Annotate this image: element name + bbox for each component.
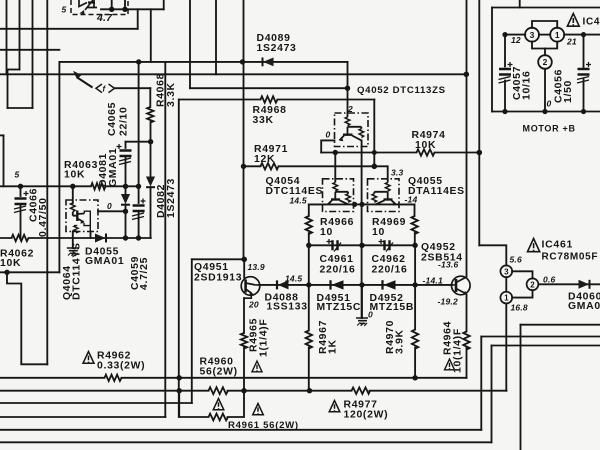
warning triangle mid: [253, 404, 264, 415]
wire stair2 down: [480, 337, 482, 430]
wire reg bracket: [512, 290, 532, 297]
resistor R4068 vertical: [147, 107, 153, 123]
svg-text:R4068: R4068: [156, 73, 167, 107]
node dot (362,284.9): [359, 282, 364, 287]
node dot (583.5,111.5): [581, 109, 586, 114]
svg-text:5.6: 5.6: [510, 255, 522, 265]
node dot (335.3,152.5): [333, 150, 338, 155]
wire R4965 branch: [243, 298, 245, 391]
wire R4966 branch: [308, 204, 310, 390]
wire stair3 down: [491, 346, 493, 443]
wire: [137, 9, 139, 29]
wire top-left component output: [101, 8, 164, 10]
wire R4971 line: [244, 165, 375, 167]
wire stair1: [521, 324, 600, 326]
svg-text:21: 21: [566, 37, 577, 47]
resistor R4968: [261, 96, 278, 102]
node dot (347.5,88.2): [345, 86, 350, 91]
wire vert right2: [478, 0, 480, 245]
wire D4060 line: [538, 283, 600, 285]
svg-text:0.33(2W): 0.33(2W): [97, 361, 145, 372]
wire vert left1: [6, 0, 8, 74]
wire vert mid1: [164, 62, 166, 417]
svg-text:10: 10: [372, 227, 385, 238]
node dot (545,111.5): [542, 109, 547, 114]
node dot (505,111.5): [502, 109, 507, 114]
svg-text:3.3: 3.3: [391, 168, 403, 178]
wire: [564, 34, 600, 36]
svg-text:20: 20: [248, 300, 259, 310]
wire jog bottom-left: [7, 272, 47, 364]
wire long bus y74: [0, 73, 466, 75]
pin circle 2 motor: [538, 55, 552, 69]
wire R4068 D4082 stem: [149, 88, 151, 238]
wire C4059 stem: [138, 62, 140, 238]
wire vert D4089 long: [243, 0, 245, 259]
node dot (415.1,377.8): [412, 375, 417, 380]
wire: [8, 107, 33, 109]
node dot (583.5,34.6): [581, 32, 586, 37]
wire bus y391: [0, 390, 507, 392]
resistor R4974: [417, 149, 435, 155]
wire R4961 loop: [179, 391, 244, 417]
wire jog to Q4055: [374, 166, 387, 179]
svg-text:0: 0: [107, 201, 112, 211]
svg-text:-14: -14: [405, 195, 418, 205]
wire C4065 branch: [125, 142, 127, 238]
wire R4062 line: [0, 237, 151, 239]
resistor R4961: [209, 414, 228, 421]
svg-text:0.47/50: 0.47/50: [38, 197, 49, 237]
node dot (7,272.3): [4, 270, 9, 275]
wire Q4951 base stem: [243, 259, 245, 277]
svg-text:C4961: C4961: [320, 254, 354, 265]
svg-text:10K: 10K: [64, 170, 85, 181]
wire: [544, 49, 546, 56]
svg-text:220/16: 220/16: [320, 265, 356, 276]
wire vert box left: [58, 62, 60, 272]
svg-text:5: 5: [15, 170, 20, 180]
node dot (151,141.7): [148, 139, 153, 144]
node dot (362,245.3): [359, 243, 364, 248]
resistor R4960: [209, 387, 228, 394]
wire: [505, 34, 525, 36]
svg-text:1: 1: [555, 30, 560, 40]
resistor R4969 vertical: [411, 216, 417, 234]
wire Q4052 pin: [347, 62, 349, 113]
resistor R4966 vertical: [306, 216, 312, 234]
svg-text:220/16: 220/16: [372, 265, 408, 276]
node dot (415.1,245.3): [412, 243, 417, 248]
wire reg in vert: [505, 277, 507, 292]
diode D4089: [263, 58, 274, 67]
node dot (72.8,186.3): [70, 184, 75, 189]
svg-text:RC78M05F: RC78M05F: [542, 252, 599, 263]
wire stair2: [481, 336, 600, 338]
warning triangle R4964: [445, 359, 455, 370]
svg-text:-19.2: -19.2: [438, 297, 458, 307]
wire: [126, 141, 151, 143]
node dot (244,390.7): [241, 388, 246, 393]
svg-text:0.6: 0.6: [543, 275, 555, 285]
node dot (179.2,377.8): [177, 375, 182, 380]
adjust arrow: [73, 71, 93, 88]
svg-text:10/16: 10/16: [522, 70, 533, 100]
node dot (125,9.3): [122, 7, 127, 12]
wire Q4052 base vert: [373, 100, 375, 167]
wire stair3: [492, 345, 600, 347]
svg-text:0: 0: [368, 310, 373, 320]
wire vert top2: [215, 0, 217, 74]
wire R4969 branch: [414, 204, 417, 377]
warning triangle R4960: [213, 399, 224, 410]
svg-text:1/50: 1/50: [563, 80, 574, 103]
wire vert left5 long: [46, 0, 48, 364]
warning triangle R4962: [83, 352, 94, 364]
wire: [0, 271, 59, 273]
ground mid: [356, 318, 368, 326]
wire Q4052 col down: [361, 140, 363, 318]
wire Q4064 col stub: [90, 232, 92, 239]
pin circle 3 reg: [500, 265, 512, 277]
photo component top-left: [71, 0, 128, 15]
node dot (362,204.4): [359, 202, 364, 207]
diode D4055: [95, 234, 106, 243]
capacitor C4059: [132, 199, 146, 220]
wire bus y403: [0, 402, 192, 404]
diode D4060: [579, 280, 590, 289]
node dot (354.6,204.4): [352, 202, 357, 207]
warning triangle IC461: [528, 239, 540, 252]
pin circle 2 reg: [527, 278, 539, 290]
svg-text:10: 10: [320, 227, 333, 238]
svg-text:DTC114YS: DTC114YS: [72, 242, 83, 300]
wire bus y442: [0, 441, 492, 443]
node dot (479.3,152.5): [477, 150, 483, 156]
transistor box Q4054: [309, 179, 354, 212]
node dot (138.3,186.3): [136, 184, 141, 189]
wire node base bus y62: [59, 61, 347, 63]
svg-text:GMA01: GMA01: [568, 301, 600, 312]
warning triangle IC460: [567, 14, 579, 27]
svg-text:IC461: IC461: [542, 239, 574, 251]
wire vert left3: [7, 70, 9, 109]
diode D4952 zener: [383, 280, 396, 289]
wire R4063 line: [0, 185, 138, 187]
wire gnd stub mid: [361, 285, 363, 318]
capacitor C4057: [499, 62, 513, 83]
wire vert top1: [189, 0, 191, 88]
wire comp leads: [112, 0, 125, 9]
node dot (308.8,284.9): [306, 282, 311, 287]
capacitor C4056: [577, 62, 591, 83]
wire: [163, 0, 165, 9]
diode D4081: [121, 194, 130, 205]
wire motor box left: [491, 8, 493, 112]
svg-text:1: 1: [504, 294, 509, 303]
capacitor C4961: [327, 239, 342, 252]
svg-text:3.3K: 3.3K: [166, 82, 177, 107]
wire pin2 stem: [544, 69, 546, 112]
svg-text:IC460: IC460: [583, 17, 600, 28]
node dot (125.7,238): [123, 235, 128, 240]
svg-text:MTZ15B: MTZ15B: [370, 302, 415, 313]
pin circle 3 motor: [525, 28, 539, 42]
node dot (244.2,259.3): [241, 257, 247, 263]
wire: [8, 69, 20, 71]
pin circle 1 motor: [550, 28, 564, 42]
pin circle 1 reg: [500, 292, 512, 304]
svg-text:56(2W): 56(2W): [200, 367, 238, 378]
resistor R4977: [352, 388, 371, 394]
wire: [150, 9, 152, 62]
svg-text:3: 3: [504, 267, 509, 276]
svg-text:2: 2: [530, 280, 535, 289]
wire: [98, 210, 126, 212]
wire Q4054 pin: [334, 153, 336, 179]
node dot (308.8,245.3): [306, 243, 311, 248]
wire: [0, 28, 138, 30]
wire stair1 down: [520, 325, 522, 450]
resistor R4964 vertical: [463, 332, 469, 350]
node dot (415.1,284.9): [412, 282, 417, 287]
wire: [0, 49, 59, 51]
diode D4951 zener: [331, 280, 344, 289]
svg-text:-13.6: -13.6: [438, 260, 458, 270]
svg-text:10K: 10K: [415, 140, 436, 151]
svg-text:Q4951: Q4951: [194, 262, 229, 273]
node dot (374.3,166.3): [372, 164, 378, 170]
wire Q4951 base L: [192, 258, 244, 260]
connector f: [96, 84, 115, 94]
node dot (374.3,152.5): [372, 150, 377, 155]
svg-text:14.5: 14.5: [285, 274, 302, 284]
wire Q4951 L vert: [191, 259, 193, 403]
diode D4082: [146, 177, 155, 188]
svg-text:2: 2: [347, 104, 353, 114]
wire motor gnd line: [492, 111, 600, 113]
capacitor C4962: [379, 239, 394, 252]
svg-text:5: 5: [62, 5, 67, 15]
svg-text:13.9: 13.9: [248, 262, 265, 272]
svg-text:12: 12: [511, 35, 521, 45]
wire reg out down: [505, 304, 507, 391]
warning triangle R4965: [252, 361, 262, 372]
svg-text:2: 2: [543, 57, 548, 67]
ground Q4064: [67, 248, 79, 256]
wire vert left4: [32, 0, 34, 108]
transistor box Q4052: [335, 113, 369, 147]
wire: [0, 134, 4, 136]
svg-text:2SD1913: 2SD1913: [194, 273, 242, 284]
resistor R4063: [91, 183, 106, 189]
wire Q4052 emitter out: [321, 140, 334, 152]
svg-text:10(1/4)F: 10(1/4)F: [453, 328, 464, 373]
svg-text:C4065: C4065: [107, 102, 118, 136]
wire C4056 stem: [583, 35, 585, 112]
node dot (243.5,166.3): [241, 164, 246, 169]
warning triangle R4977: [329, 401, 340, 412]
svg-text:1(1/4)F: 1(1/4)F: [259, 319, 270, 357]
svg-text:1K: 1K: [328, 339, 339, 354]
node dot (179.2,390.7): [177, 388, 182, 393]
svg-text:16.8: 16.8: [511, 303, 528, 313]
wire: [3, 135, 5, 186]
wire Q4952 stem: [451, 284, 453, 286]
svg-text:C4962: C4962: [372, 254, 406, 265]
node dot (20.5,186.3): [18, 184, 23, 189]
svg-text:10K: 10K: [0, 258, 21, 269]
svg-text:12K: 12K: [254, 154, 275, 165]
transistor Q4952: [452, 276, 471, 295]
svg-text:3: 3: [530, 30, 535, 40]
wire cap line C4961 C4962: [309, 244, 415, 246]
resistor R4062: [12, 235, 29, 241]
resistor R4962: [105, 375, 122, 381]
wire pin bracket: [532, 21, 557, 28]
wire vert left2: [19, 0, 21, 70]
svg-text:3.9K: 3.9K: [395, 329, 406, 354]
transistor box Q4064: [66, 200, 98, 233]
wire: [539, 34, 550, 36]
svg-text:0: 0: [326, 130, 331, 140]
wire jog to reg: [479, 245, 506, 265]
svg-text:1S2473: 1S2473: [257, 43, 297, 54]
wire vert right main: [466, 0, 468, 378]
node dot (310,390.7): [307, 388, 312, 393]
wire Q4064 pin: [72, 186, 74, 203]
resistor R4970 vertical: [412, 330, 418, 349]
svg-text:Q4952: Q4952: [421, 242, 456, 253]
svg-text:GMA01: GMA01: [108, 148, 119, 187]
resistor R4967 vertical: [306, 331, 312, 349]
wire IC box bottom: [492, 7, 600, 9]
wire bus y430: [0, 429, 481, 431]
resistor R4965 vertical: [241, 333, 247, 349]
wire: [190, 87, 348, 89]
transistor box Q4055: [368, 179, 415, 212]
node dot (242.5,61.9): [240, 59, 245, 64]
svg-text:MOTOR +B: MOTOR +B: [523, 124, 576, 134]
capacitor C4066: [14, 191, 29, 213]
wire diode row y285: [259, 284, 452, 286]
wire C4057 stem: [504, 35, 506, 112]
diode D4088: [277, 280, 289, 289]
svg-text:1SS133: 1SS133: [267, 302, 308, 313]
svg-text:1S2473: 1S2473: [166, 178, 177, 218]
svg-text:0: 0: [547, 99, 552, 109]
wire bus y378: [0, 377, 467, 379]
svg-text:Q4052 DTC113ZS: Q4052 DTC113ZS: [357, 85, 446, 96]
wire IC box edge: [519, 0, 521, 8]
node dot (138.7,61.9): [136, 59, 141, 64]
svg-text:-14.1: -14.1: [423, 276, 443, 286]
node dot (138.5,238): [136, 235, 141, 240]
wire pin2 bracket: [532, 42, 557, 49]
node dot (111.7,9.3): [109, 7, 114, 12]
wire vert mid2: [178, 100, 180, 418]
node dot (125.7,211.3): [123, 209, 128, 214]
wire emitter bus: [309, 203, 415, 205]
node dot (505,34.6): [502, 32, 507, 37]
node dot (466.3,74.3): [464, 72, 470, 78]
node dot (125.7,186.3): [123, 184, 128, 189]
wire f-line: [115, 87, 150, 89]
wire Q4064 gnd stub: [72, 232, 74, 249]
svg-text:4.7: 4.7: [96, 12, 113, 24]
svg-text:MTZ15C: MTZ15C: [317, 302, 362, 313]
wire R4974 line: [321, 152, 479, 154]
svg-text:GMA01: GMA01: [85, 256, 124, 267]
wire bus y417: [0, 416, 165, 418]
transistor Q4951: [241, 277, 260, 298]
resistor R4971: [261, 163, 279, 169]
svg-text:4.7/25: 4.7/25: [139, 257, 150, 290]
wire reg bracket: [512, 271, 532, 278]
svg-text:33K: 33K: [253, 115, 274, 126]
wire R4968 line: [179, 99, 375, 101]
svg-text:120(2W): 120(2W): [344, 410, 389, 421]
svg-text:14.5: 14.5: [290, 196, 307, 206]
svg-text:22/10: 22/10: [119, 106, 130, 136]
capacitor C4065: [117, 144, 132, 165]
wire C4066 stem: [20, 186, 22, 238]
svg-text:R4961 56(2W): R4961 56(2W): [228, 420, 299, 431]
